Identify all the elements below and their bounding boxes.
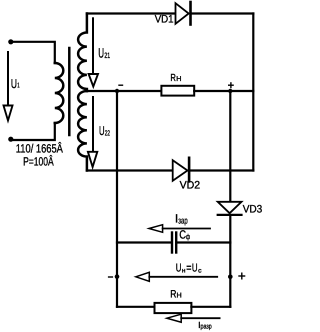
svg-text:U: U — [11, 76, 17, 91]
diode VD1 — [176, 2, 191, 25]
current arrow Izar — [149, 225, 210, 233]
wire — [192, 12, 254, 14]
svg-text:U: U — [99, 124, 105, 138]
transformer T1 secondary winding U21 — [78, 14, 87, 92]
wire left rail — [116, 91, 118, 307]
resistor RH load top — [161, 86, 194, 96]
svg-text:U: U — [98, 46, 104, 61]
wire center tap — [87, 90, 161, 92]
voltage arrow U1 — [4, 52, 13, 121]
svg-text:Н: Н — [176, 75, 181, 83]
transformer T1 secondary winding U22 — [78, 91, 87, 171]
svg-text:VD2: VD2 — [180, 180, 201, 192]
svg-text:зар: зар — [178, 216, 187, 226]
wire inner right rail upper — [229, 91, 231, 202]
wire right outer rail — [252, 14, 254, 171]
svg-text:P=100Â: P=100Â — [23, 155, 54, 169]
svg-text:VD1: VD1 — [155, 14, 174, 26]
node input terminal top — [8, 39, 13, 44]
transformer T1 core — [68, 48, 71, 135]
wire — [194, 90, 253, 92]
svg-text:Н: Н — [177, 292, 182, 300]
svg-text:22: 22 — [105, 129, 110, 138]
node junction minus — [115, 89, 119, 93]
svg-text:21: 21 — [104, 51, 110, 60]
node junction plus — [228, 89, 232, 93]
label minus — [109, 276, 113, 278]
wire — [190, 169, 253, 171]
wire inner right rail lower — [229, 216, 231, 307]
wire — [178, 241, 231, 243]
svg-text:ф: ф — [186, 233, 190, 241]
diode VD3 — [218, 202, 242, 215]
wire top — [87, 12, 176, 14]
wire — [11, 42, 55, 63]
svg-text:R: R — [170, 73, 176, 84]
node junction output plus — [228, 275, 233, 280]
wire — [191, 306, 230, 308]
transformer T1 primary winding — [55, 63, 64, 123]
label plus — [229, 83, 233, 88]
resistor RH load bottom — [155, 303, 192, 313]
voltage arrow Un=Uc — [136, 272, 217, 281]
svg-text:1: 1 — [17, 83, 19, 90]
wire — [11, 123, 55, 140]
svg-text:=: = — [186, 262, 191, 274]
svg-text:U: U — [192, 262, 198, 274]
svg-text:разр: разр — [201, 324, 212, 331]
svg-text:VD3: VD3 — [243, 204, 263, 216]
current arrow Irazr — [167, 314, 220, 322]
node input terminal bottom — [8, 137, 13, 142]
label minus — [119, 84, 123, 86]
voltage arrow U22 — [88, 97, 97, 167]
svg-text:110/ 1665Â: 110/ 1665Â — [16, 141, 63, 155]
voltage arrow U21 — [89, 18, 98, 86]
svg-text:U: U — [176, 262, 182, 274]
node junction output minus — [115, 274, 120, 279]
wire — [87, 169, 173, 171]
wire — [117, 241, 171, 243]
capacitor CF — [172, 233, 176, 253]
label plus — [239, 273, 245, 279]
diode VD2 — [173, 158, 189, 182]
wire bottom — [117, 306, 155, 308]
